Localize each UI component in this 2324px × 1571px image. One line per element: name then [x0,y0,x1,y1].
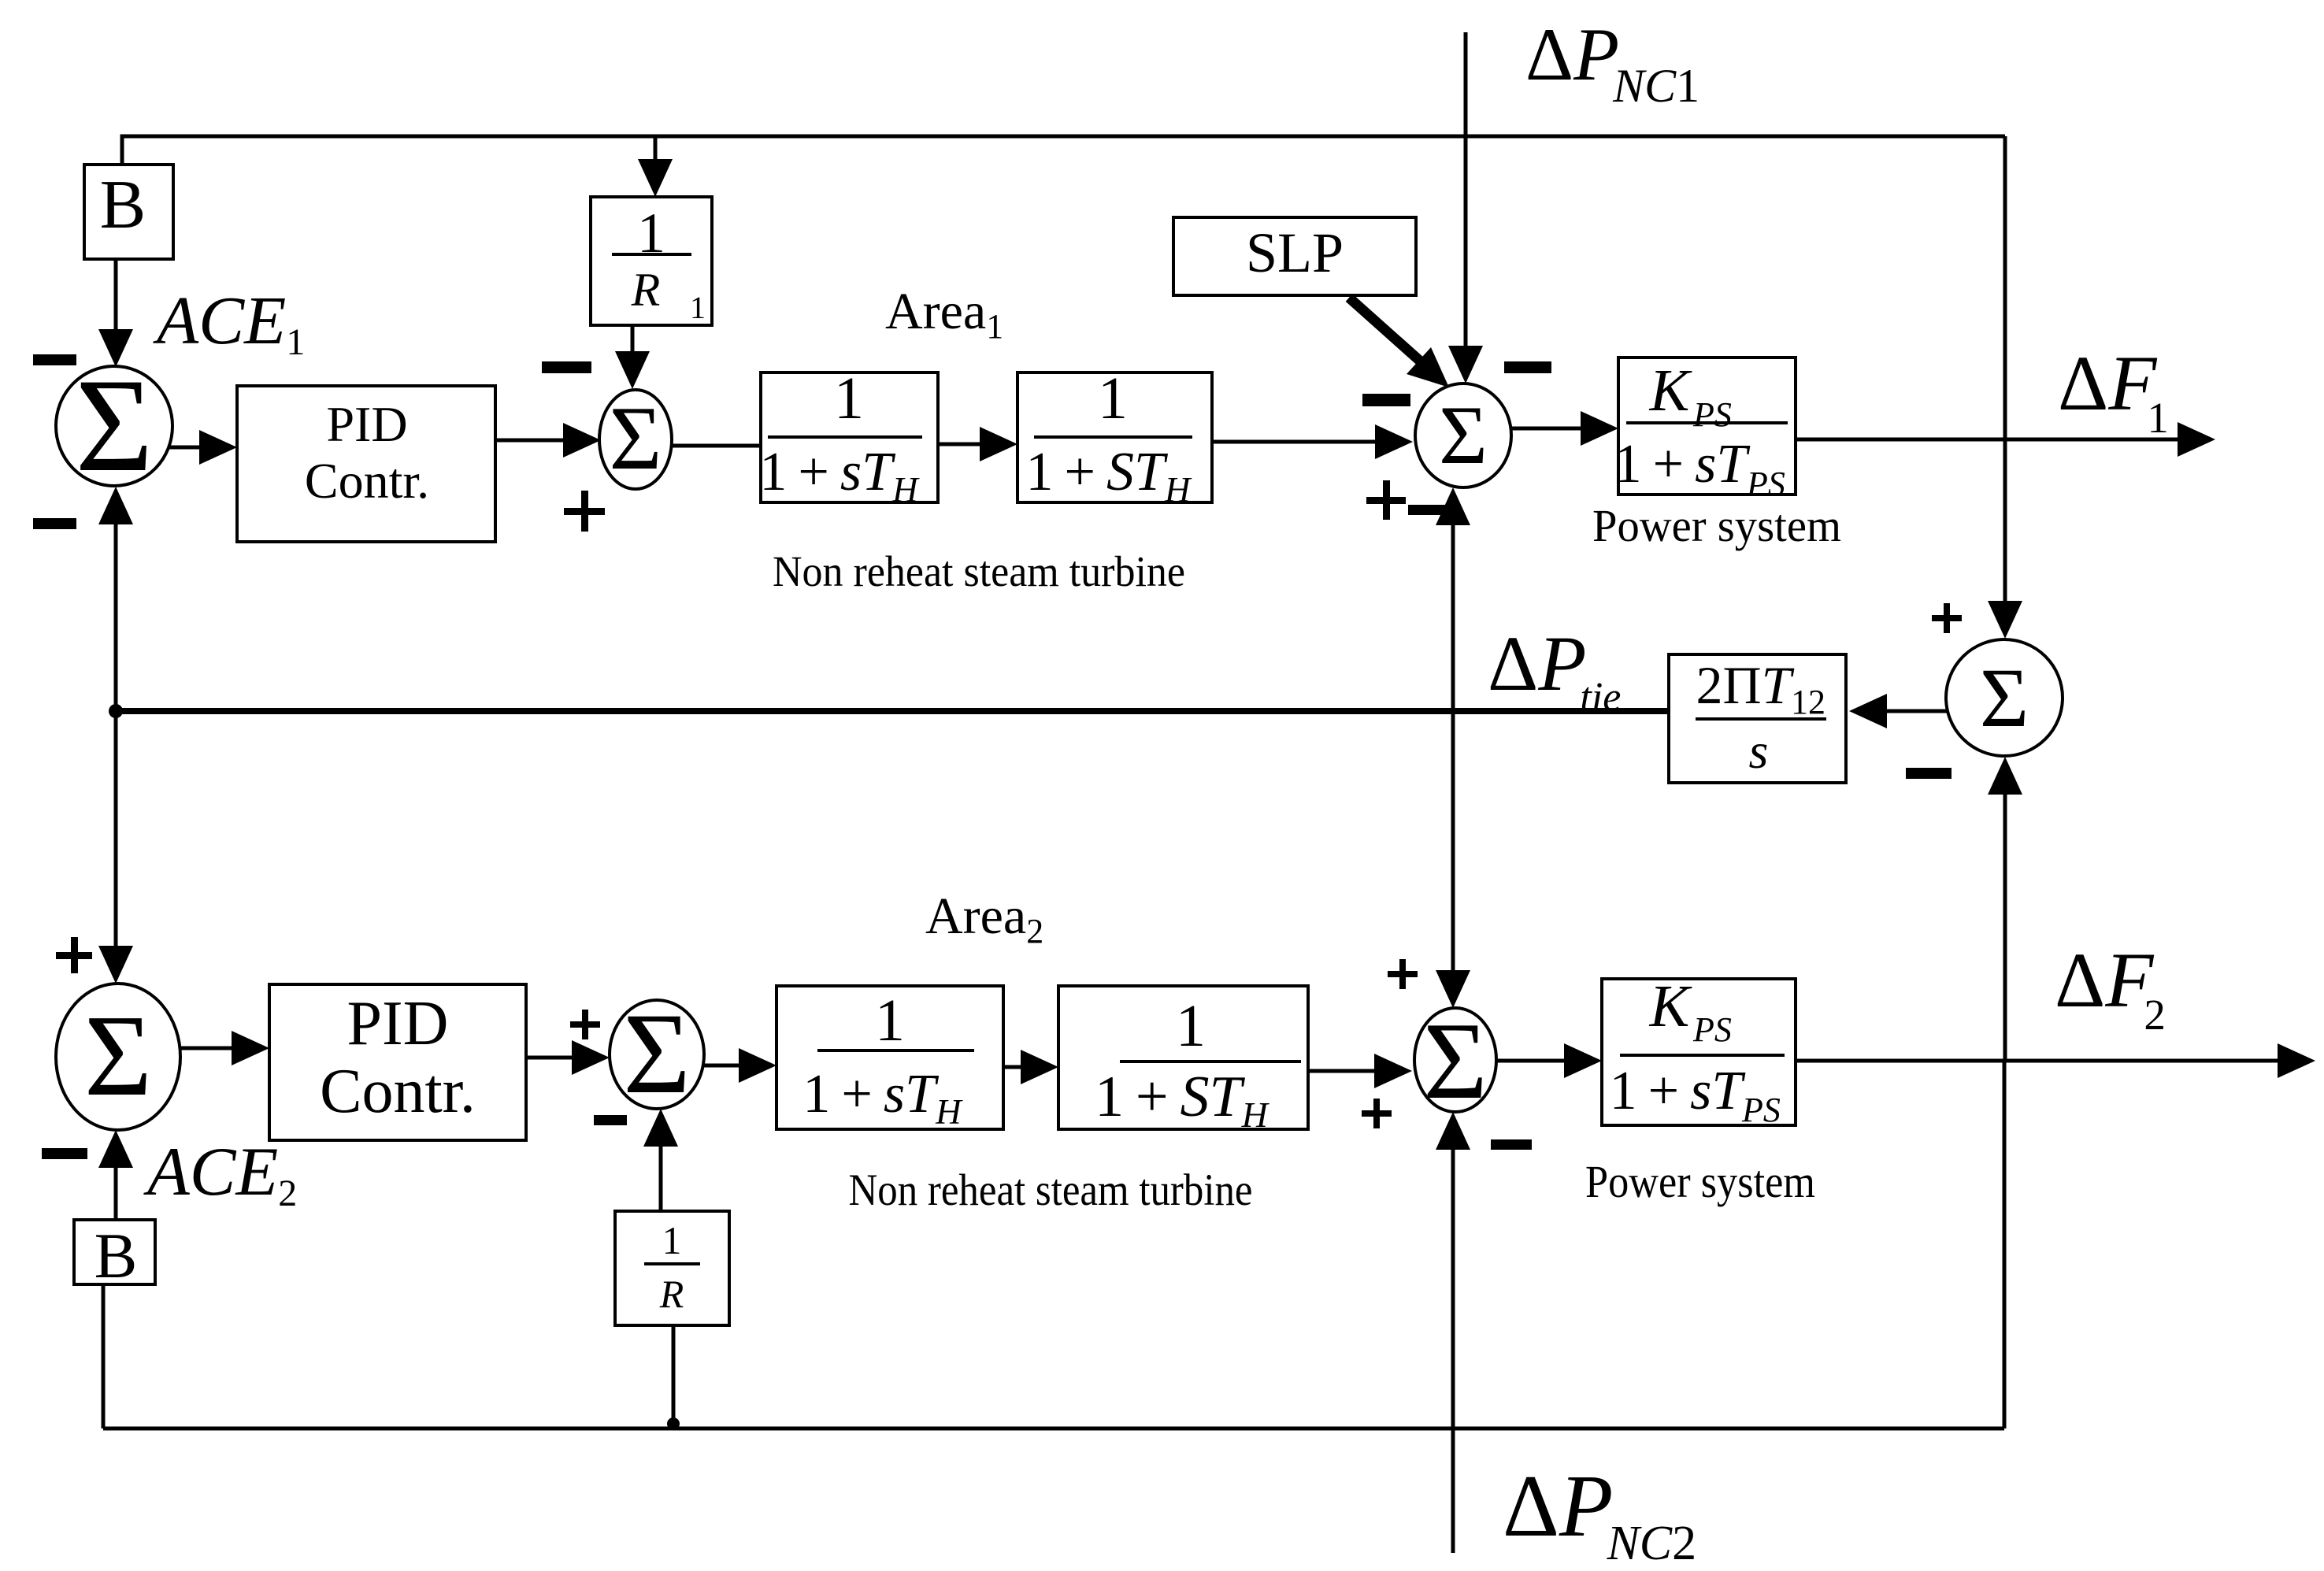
svg-text:1 + sT: 1 + sT [1610,1061,1747,1121]
svg-text:PS: PS [1746,465,1785,503]
svg-text:Power system: Power system [1592,500,1841,551]
svg-text:Contr.: Contr. [305,453,429,509]
svg-text:SLP: SLP [1246,221,1344,284]
plus sign (PID input of sum6) [570,1010,600,1039]
svg-text:ACE1: ACE1 [153,282,305,363]
wire: tie junction up into sum3 [1436,487,1470,711]
plus sign (ΔF1 input of sum4) [1932,603,1962,633]
arrow: SLP to sum3 (thick diagonal) [1349,298,1449,387]
summing junction sum4 (tie-line) [1946,639,2063,756]
minus sign (1/R1 input of sum2) [542,361,591,373]
svg-text:ΔF2: ΔF2 [2055,936,2166,1039]
svg-text:1: 1 [662,1218,682,1262]
block power system 1 (KPS/(1+sTPS)) [1614,358,1796,503]
wire: right feedback vertical from top line down into sum4 [1988,136,2022,639]
block PID controller 1 [237,386,495,542]
block tie-line integrator (2ΠT12/s) [1669,654,1846,783]
block SLP [1173,217,1416,295]
wire: ΔF2 junction up into sum4 [1988,757,2022,1061]
wire: sum4 output left into tie integrator [1849,694,1947,728]
svg-text:PID: PID [347,989,449,1058]
wire: sum3 output to power system 1 [1511,411,1618,446]
plus sign (turbine input of sum7) [1362,1099,1392,1128]
svg-text:R: R [659,1272,684,1316]
svg-text:1 + sT: 1 + sT [1614,434,1751,495]
wire: sum7 output to power system 2 [1496,1043,1602,1078]
summing junction sum7 (area 2 power system input) [1414,1000,1496,1122]
svg-text:1: 1 [1098,365,1128,432]
wire: turbine2 to sum7 [1308,1054,1412,1088]
svg-text:Area1: Area1 [885,283,1003,346]
minus sign (B1 input of sum1) [33,354,76,365]
wire: bottom line up into 1/R2 [672,1325,676,1428]
block B1 (frequency bias, area 1) [84,165,173,259]
plus sign (PID input of sum2) [564,491,605,532]
svg-text:1: 1 [875,987,905,1054]
minus sign (tie-line input of sum1) [33,518,76,529]
junction dot at bottom line / 1/R2 [667,1417,680,1430]
svg-text:R: R [631,264,661,316]
junction dot at tie line / left vertical [109,704,123,718]
minus sign (B2 input of sum5) [42,1148,87,1159]
svg-text:B: B [95,1220,138,1291]
wire: B2 down to bottom feedback line [102,1284,106,1428]
block power system 2 (KPS/(1+sTPS)) [1602,973,1796,1129]
svg-text:ΔF1: ΔF1 [2058,339,2169,442]
block turbine stage 2 area 2 (1/(1+STH)) [1058,986,1308,1135]
wire: turbine2 to sum3 [1212,424,1413,459]
wire: B2 up into sum5 [98,1130,133,1220]
svg-text:Σ: Σ [84,991,152,1121]
wire: left vertical, tie junction up into sum1 and down into sum5 [98,487,133,984]
wire: 1/R2 up into sum6 [643,1109,678,1211]
block B2 (frequency bias, area 2) [74,1220,155,1291]
svg-text:ACE2: ACE2 [143,1134,297,1214]
minus sign (NC1 input of sum3) [1504,361,1551,373]
wire: ΔF2 output arrow [1796,1043,2315,1078]
svg-text:1: 1 [1176,993,1206,1059]
svg-text:Σ: Σ [76,351,154,499]
svg-text:1: 1 [834,365,864,432]
summing junction sum6 (governor input, area 2) [610,989,704,1117]
svg-text:12: 12 [1791,683,1825,721]
svg-text:K: K [1649,973,1692,1039]
wire: top feedback line from B1 corner to right vertical [122,136,2005,165]
minus sign (NC2 input of sum7) [1491,1139,1532,1150]
wire: ΔP_NC2 up into sum7 [1436,1112,1470,1553]
wire: sum1 output to PID1 [169,430,237,465]
summing junction sum5 (ACE2) [56,984,180,1130]
wire: tie junction down into sum7 [1436,711,1470,1008]
wire: ΔF1 output arrow [1796,422,2215,457]
block droop 1/R (area 2) [615,1211,729,1325]
svg-text:Σ: Σ [1439,389,1488,481]
svg-text:Non reheat steam turbine: Non reheat steam turbine [849,1165,1253,1215]
summing junction sum3 (area 1 power system input) [1415,383,1511,487]
wire: turbine1 to turbine2 area 2 [1003,1050,1058,1084]
wire: sum5 output to PID2 [180,1031,269,1065]
svg-text:Contr.: Contr. [320,1057,476,1126]
wire: top line down into 1/R1 [638,136,673,197]
plus sign (tie input of sum3) [1366,480,1406,520]
svg-text:Σ: Σ [610,388,662,488]
minus sign (ΔF2 input of sum4) [1906,768,1951,779]
block turbine stage 1 area 1 (1/(1+sTH)) [759,365,938,509]
summing junction sum1 (ACE1) [56,351,172,499]
wire: PID2 output to sum6 [526,1040,610,1075]
minus sign (1/R input of sum6) [594,1115,627,1125]
wire: turbine1 to turbine2 area 1 [938,427,1017,461]
svg-text:PS: PS [1692,1010,1732,1049]
svg-text:Σ: Σ [623,989,691,1117]
plus sign (tie input of sum7) [1388,959,1418,989]
wire: sum6 output to turbine1 area 2 [704,1048,777,1083]
summing junction sum2 (governor input, area 1) [599,388,672,489]
svg-text:Non reheat steam turbine: Non reheat steam turbine [773,547,1185,595]
svg-text:PID: PID [326,396,407,452]
wire: 1/R1 output down into sum2 [615,325,650,389]
block turbine stage 1 area 2 (1/(1+sTH)) [777,986,1003,1132]
wire: tie line ΔP_tie [116,708,1669,714]
svg-text:s: s [1749,723,1769,779]
svg-text:1: 1 [690,290,706,325]
svg-text:PS: PS [1692,395,1732,434]
block turbine stage 2 area 1 (1/(1+STH)) [1017,365,1212,509]
wire: ΔP_NC1 down into sum3 [1448,32,1483,383]
svg-text:Σ: Σ [1980,652,2029,745]
svg-text:PS: PS [1741,1091,1781,1129]
svg-text:Σ: Σ [1423,1000,1487,1122]
block PID controller 2 [269,984,526,1140]
plus sign (tie input of sum5) [56,937,92,973]
svg-text:B: B [100,167,146,243]
wire: B1 output down into sum1 [98,259,133,367]
svg-text:Power system: Power system [1585,1156,1815,1207]
svg-text:K: K [1649,358,1692,424]
wire: sum2 output to turbine1 [672,444,761,448]
minus sign (tie input of sum3) [1408,505,1453,515]
minus sign (turbine input of sum3) [1362,394,1410,406]
svg-text:2ΠT: 2ΠT [1696,655,1795,715]
svg-text:Area2: Area2 [925,887,1043,950]
block droop 1/R1 [591,197,712,325]
wire: PID1 output to sum2 [495,423,601,458]
wire: bottom feedback line [103,1427,2004,1431]
wire: right vertical from ΔF2 junction down to bottom line [2003,1061,2007,1428]
